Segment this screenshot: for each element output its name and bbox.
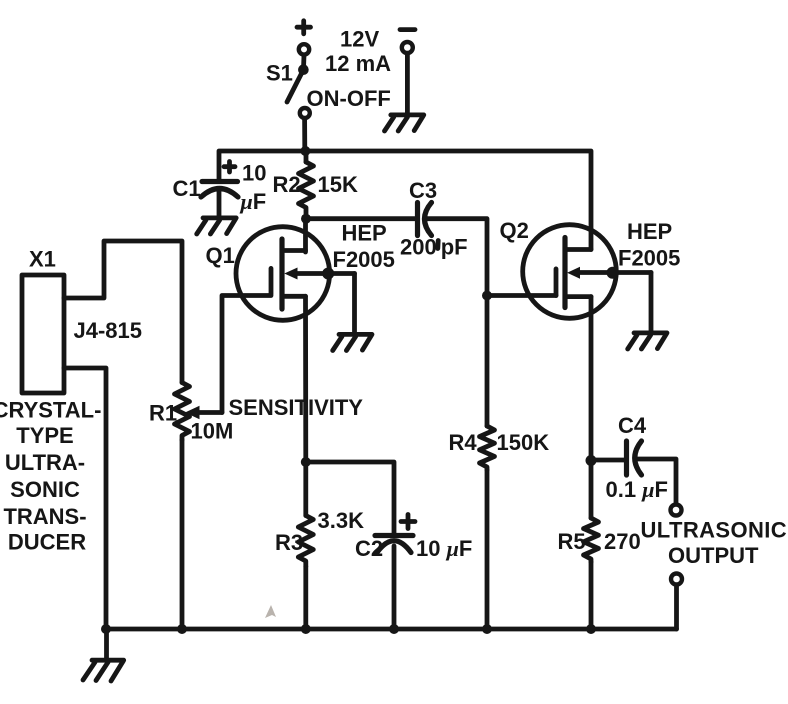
svg-text:R2: R2 — [273, 172, 301, 197]
resistor R5 — [584, 461, 599, 630]
wire R2 junction to C3 — [306, 216, 418, 221]
capacitor C3 — [418, 203, 432, 236]
resistor R2 — [299, 151, 314, 218]
stray tick in 200 pF — [435, 241, 440, 249]
svg-text:HEP: HEP — [627, 219, 672, 244]
wire junction to C2 — [306, 462, 394, 536]
C1 polarity plus — [224, 162, 235, 173]
svg-text:ON-OFF: ON-OFF — [307, 86, 391, 111]
output terminal top — [671, 505, 682, 516]
wire Q2 source down to C4/R5 node — [589, 297, 594, 461]
svg-text:ULTRASONIC: ULTRASONIC — [641, 518, 788, 543]
svg-text:F2005: F2005 — [333, 247, 395, 272]
svg-text:F2005: F2005 — [618, 246, 680, 271]
svg-text:TYPE: TYPE — [16, 423, 73, 448]
wire X1 bottom lead to ground rail — [64, 368, 106, 629]
ground under minus terminal — [385, 115, 424, 131]
node C2/ground rail — [389, 624, 399, 634]
svg-text:HEP: HEP — [342, 221, 387, 246]
ground under Q2 — [628, 333, 667, 349]
wire output terminal to ground rail — [674, 585, 679, 629]
svg-text:R1: R1 — [149, 401, 177, 426]
svg-text:TRANS-: TRANS- — [3, 504, 86, 529]
svg-text:Q1: Q1 — [206, 243, 235, 268]
wire C3 to Q2 gate node — [427, 219, 488, 296]
ground under C1 — [197, 218, 237, 234]
battery plus sign — [297, 21, 311, 34]
wire Q2 substrate to ground — [649, 273, 654, 332]
wire junction to C4 — [591, 458, 627, 463]
node ground rail left end — [101, 624, 111, 634]
wire Q1 source down to R3/C2 node — [303, 296, 308, 462]
svg-text:C1: C1 — [173, 176, 201, 201]
main ground symbol — [83, 660, 124, 681]
svg-text:SONIC: SONIC — [10, 477, 80, 502]
transistor Q1 (HEP F2005 MOSFET) — [236, 227, 355, 321]
svg-text:R4: R4 — [449, 430, 478, 455]
svg-text:12V: 12V — [340, 27, 379, 52]
wire Q2 gate to C3/R4 node — [487, 293, 556, 298]
node C3/R4/Q2 gate junction — [482, 291, 492, 301]
svg-text:CRYSTAL-: CRYSTAL- — [0, 397, 101, 422]
svg-text:C4: C4 — [618, 413, 647, 438]
svg-text:0.1 μF: 0.1 μF — [606, 477, 668, 502]
wire C4 to output terminal — [637, 459, 677, 504]
wire minus terminal to ground — [405, 54, 410, 115]
svg-text:J4-815: J4-815 — [74, 318, 143, 343]
svg-text:μF: μF — [240, 189, 267, 214]
wire R1 bottom to ground rail — [180, 440, 185, 629]
wire S1 to V+ rail — [302, 119, 307, 151]
svg-text:S1: S1 — [266, 60, 293, 85]
capacitor C1 — [201, 182, 238, 217]
output terminal bottom — [671, 574, 682, 585]
wire Q1 substrate to ground — [352, 274, 357, 334]
wire rail to main ground — [104, 629, 109, 660]
transducer X1 body — [22, 275, 64, 393]
node R3/ground rail — [301, 624, 311, 634]
capacitor C4 — [627, 441, 642, 475]
resistor R3 — [298, 462, 313, 629]
wire Q1 drain to R2 junction — [303, 218, 308, 252]
capacitor C2 — [375, 536, 413, 630]
node Q2 source/C4/R5 junction — [586, 455, 597, 466]
wire ground rail (bottom bus) — [106, 627, 677, 632]
svg-text:X1: X1 — [29, 246, 56, 271]
battery minus terminal — [402, 42, 413, 53]
battery minus sign — [400, 27, 415, 32]
transistor Q2 (HEP F2005 MOSFET) — [523, 225, 651, 319]
node S1/rail junction — [300, 146, 310, 156]
svg-text:C2: C2 — [355, 536, 383, 561]
node R4/ground rail — [482, 624, 492, 634]
svg-text:R5: R5 — [558, 529, 586, 554]
svg-text:OUTPUT: OUTPUT — [668, 543, 759, 568]
resistor R4 — [480, 296, 495, 630]
svg-text:Q2: Q2 — [500, 218, 529, 243]
svg-text:200pF: 200pF — [400, 235, 468, 260]
potentiometer R1 — [175, 383, 223, 441]
wire Q1 gate to R1 wiper — [222, 296, 271, 413]
scanner smudge artifact — [265, 605, 276, 618]
svg-text:DUCER: DUCER — [8, 530, 86, 555]
node R2/C3/Q1 drain junction — [301, 214, 311, 224]
svg-text:270: 270 — [604, 529, 641, 554]
svg-text:10M: 10M — [191, 419, 234, 444]
svg-text:ULTRA-: ULTRA- — [5, 450, 85, 475]
svg-text:3.3K: 3.3K — [318, 508, 365, 533]
svg-text:10 μF: 10 μF — [416, 536, 472, 561]
svg-text:15K: 15K — [318, 172, 358, 197]
node Q1 substrate/case junction — [322, 268, 334, 280]
svg-text:SENSITIVITY: SENSITIVITY — [229, 395, 364, 420]
svg-text:10: 10 — [242, 161, 266, 186]
svg-text:12 mA: 12 mA — [325, 51, 391, 76]
wire V+ rail — [219, 151, 591, 250]
node R1/ground rail — [177, 624, 187, 634]
C2 polarity plus — [401, 515, 415, 529]
node R5/ground rail — [586, 624, 596, 634]
svg-text:R3: R3 — [275, 530, 303, 555]
label CRYSTAL-TYPE ULTRASONIC TRANSDUCER — [0, 397, 101, 554]
svg-text:C3: C3 — [409, 178, 437, 203]
ground under Q1 — [333, 334, 372, 350]
node Q2 substrate/case junction — [607, 267, 619, 279]
wire X1 top lead to R1 top — [64, 241, 182, 383]
switch S1 — [287, 44, 310, 118]
node Q1 source/R3/C2 junction — [301, 457, 311, 467]
svg-text:150K: 150K — [497, 430, 550, 455]
